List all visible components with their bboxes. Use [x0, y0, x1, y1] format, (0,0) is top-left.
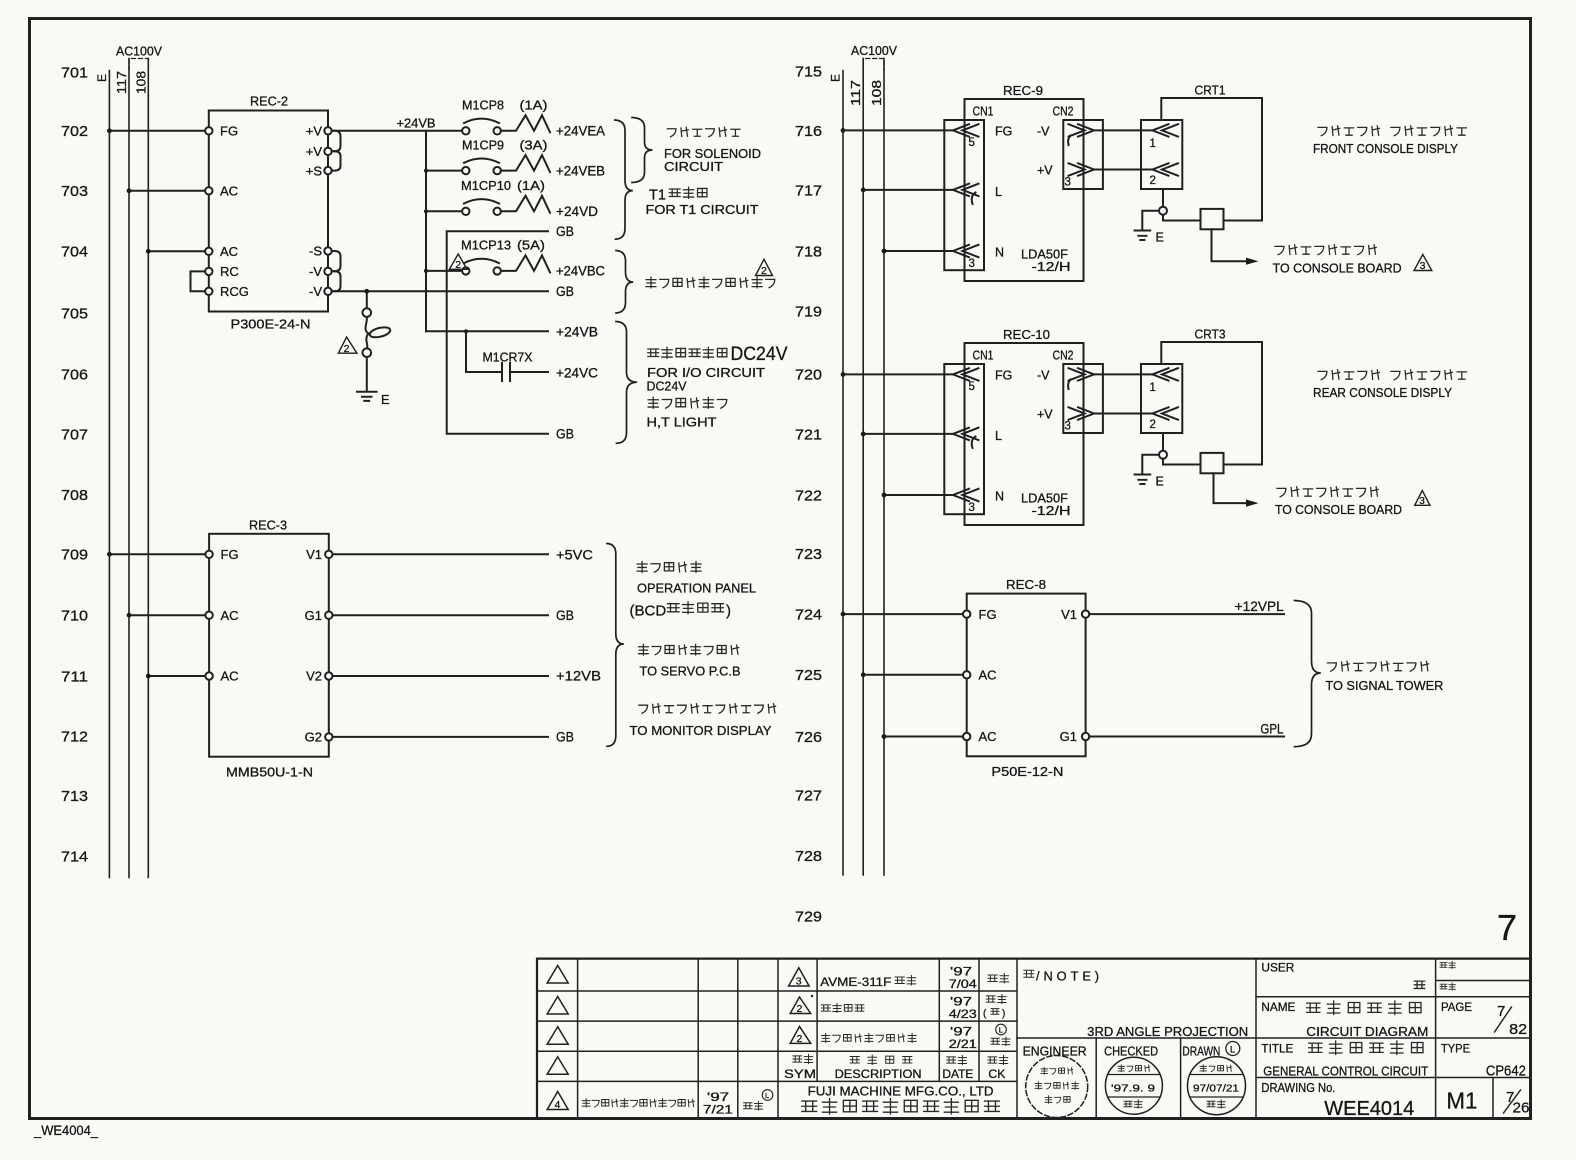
svg-text:): ) — [1002, 1008, 1005, 1019]
svg-text:-V: -V — [1037, 369, 1050, 383]
wire 709 E to REC-3 FG — [107, 552, 205, 557]
svg-text:+24VBC: +24VBC — [556, 264, 605, 279]
wire G1 GB — [333, 614, 549, 616]
ground E (left) — [357, 392, 390, 407]
svg-text:2: 2 — [797, 1003, 803, 1015]
wire 724 E to REC-8 FG — [841, 612, 963, 617]
net label +24VEA — [556, 124, 605, 139]
svg-text:-V: -V — [309, 264, 322, 279]
svg-text:(1A): (1A) — [517, 179, 545, 193]
svg-text:708: 708 — [61, 487, 88, 504]
REC-2 pin RC — [205, 264, 239, 279]
svg-text:): ) — [726, 603, 731, 620]
svg-text:CIRCUIT: CIRCUIT — [664, 159, 723, 174]
label TO SIGNAL TOWER — [1325, 678, 1443, 693]
wire CN2 -V to CRT3 pin1 — [1094, 373, 1153, 375]
svg-text:_WE4004_: _WE4004_ — [33, 1122, 98, 1138]
svg-text:REC-2: REC-2 — [250, 94, 288, 109]
net label +24VB top — [397, 116, 436, 131]
svg-text:CN2: CN2 — [1053, 104, 1074, 118]
jumper -V/-V — [332, 271, 341, 291]
svg-text:-12/H: -12/H — [1032, 260, 1071, 274]
wire 711 108 to REC-3 AC — [146, 674, 205, 679]
svg-text:5: 5 — [969, 381, 975, 393]
brace io group — [616, 322, 637, 444]
svg-text:GB: GB — [556, 608, 574, 623]
svg-text:717: 717 — [795, 183, 822, 200]
svg-text:G1: G1 — [305, 608, 322, 623]
line number 726 — [795, 729, 822, 746]
svg-text:FUJI MACHINE MFG.CO., LTD: FUJI MACHINE MFG.CO., LTD — [808, 1084, 994, 1099]
svg-text:FRONT CONSOLE DISPLY: FRONT CONSOLE DISPLY — [1313, 141, 1458, 156]
svg-text:-12/H: -12/H — [1032, 504, 1071, 518]
svg-text:2: 2 — [797, 1033, 803, 1045]
svg-text:CN2: CN2 — [1053, 348, 1074, 362]
company FUJI MACHINE MFG.CO., LTD — [808, 1084, 994, 1099]
jumper -S/-V — [332, 251, 341, 271]
wire G2 GB — [333, 736, 549, 738]
label signal tower jp — [1327, 661, 1428, 671]
line number 729 — [795, 908, 822, 925]
branch to M1CP9 — [426, 170, 462, 172]
wire 725 117 to REC-8 AC — [861, 672, 963, 677]
svg-text:REC-9: REC-9 — [1003, 83, 1043, 98]
label REAR CONSOLE DISPLY — [1313, 385, 1452, 400]
svg-text:711: 711 — [61, 668, 88, 685]
revision 3 description AVME-311F jp — [820, 975, 916, 989]
title electric circuit diagram jp — [1307, 1001, 1421, 1015]
svg-text:+24VEB: +24VEB — [556, 163, 605, 178]
REC-2 pin FG — [205, 124, 238, 139]
svg-text:CHECKED: CHECKED — [1104, 1045, 1158, 1059]
svg-text:M1: M1 — [1446, 1088, 1477, 1114]
REC-8 pin AC (117) — [963, 668, 997, 683]
branch to M1CP13 — [426, 270, 462, 272]
fuse M1CP10 (1A) — [461, 179, 550, 215]
CN1 pin L arrow — [953, 428, 1002, 448]
big page number 7 — [1497, 907, 1517, 948]
label tono jp — [1414, 981, 1424, 988]
engineer stamp — [1026, 1056, 1088, 1118]
brace safety group — [616, 251, 633, 314]
header DESCRIPTION — [835, 1055, 922, 1081]
header CK — [988, 1055, 1008, 1081]
svg-text:5: 5 — [969, 137, 975, 149]
svg-text:GB: GB — [556, 730, 574, 745]
svg-text:M1CP8: M1CP8 — [462, 99, 504, 113]
svg-text:701: 701 — [61, 64, 88, 81]
svg-text:SYM: SYM — [784, 1069, 816, 1081]
revision 2 date — [949, 994, 977, 1021]
power supply REC-9 box — [965, 83, 1084, 281]
REC-2 pin -S — [309, 244, 332, 259]
svg-text:+V: +V — [1037, 408, 1053, 422]
svg-text:722: 722 — [795, 487, 822, 504]
label TYPE — [1441, 1041, 1470, 1055]
drawn stamp — [1188, 1057, 1246, 1115]
bus 108 (right) — [870, 59, 884, 876]
svg-text:3: 3 — [969, 258, 975, 270]
svg-text:REC-3: REC-3 — [249, 518, 287, 533]
header CHECKED — [1104, 1045, 1158, 1059]
ground E CRT1 — [1135, 231, 1164, 245]
revision triangle 2 at M1CP13 — [449, 254, 467, 271]
svg-text:(3A): (3A) — [520, 138, 548, 152]
net label +24VEB — [556, 163, 605, 178]
svg-text:702: 702 — [61, 123, 88, 140]
wire 703 117 to REC-2 AC — [127, 188, 206, 193]
label 3RD ANGLE PROJECTION — [1087, 1024, 1248, 1039]
svg-text:CK: CK — [988, 1069, 1005, 1081]
label bunban jp — [1440, 961, 1455, 968]
header SYM — [784, 1054, 816, 1081]
console tap box CRT3 — [1201, 453, 1224, 473]
line number 728 — [795, 848, 822, 865]
note box — [1017, 959, 1256, 1119]
drawing number WEE4014 — [1324, 1098, 1414, 1120]
wire 108 bus to CN1 N — [882, 493, 953, 498]
label T1 circuit jp — [649, 187, 707, 203]
bus 108 (left) — [135, 59, 149, 878]
line number 712 — [61, 729, 88, 746]
fuse M1CP8 (1A) — [462, 99, 550, 135]
svg-text:V1: V1 — [306, 547, 322, 562]
svg-text:117: 117 — [115, 71, 129, 94]
svg-text:AC: AC — [221, 669, 239, 684]
svg-text:GB: GB — [556, 284, 574, 299]
svg-text:CN1: CN1 — [973, 104, 994, 118]
svg-text:M1CR7X: M1CR7X — [483, 351, 534, 365]
svg-text:M1CP9: M1CP9 — [462, 138, 504, 152]
svg-text:E: E — [829, 74, 843, 82]
svg-text:L: L — [765, 1091, 769, 1100]
wire CN2 +V to CRT1 pin2 — [1094, 169, 1153, 171]
line number 719 — [795, 303, 822, 320]
svg-text:724: 724 — [795, 606, 822, 623]
label FOR I/O CIRCUIT — [647, 365, 765, 380]
svg-text:+V: +V — [306, 144, 323, 159]
svg-text:RC: RC — [220, 264, 239, 279]
svg-text:CIRCUIT DIAGRAM: CIRCUIT DIAGRAM — [1306, 1024, 1428, 1039]
connector CN2 of REC-10 — [1053, 348, 1103, 433]
wire +24VB out — [426, 329, 548, 333]
svg-text:-V: -V — [309, 284, 322, 299]
capacitor M1CR7X — [466, 331, 548, 381]
bus 117 (left) — [115, 59, 129, 878]
connector 1/2 of CRT1 — [1141, 120, 1182, 189]
revision triangle 2 entry — [790, 1027, 811, 1046]
revision 2 CK jp — [983, 994, 1006, 1019]
svg-text:USER: USER — [1261, 963, 1294, 975]
svg-text:97/07/21: 97/07/21 — [1193, 1083, 1239, 1095]
label DRAWING No. — [1261, 1081, 1335, 1095]
svg-text:GPL: GPL — [1260, 722, 1283, 737]
REC-3 pin FG — [205, 547, 238, 562]
svg-text:2/21: 2/21 — [949, 1037, 977, 1051]
earth tap from -V : circles and loop — [363, 289, 392, 390]
sheet M1 — [1446, 1088, 1477, 1114]
label GENERAL CONTROL CIRCUIT — [1263, 1064, 1428, 1079]
label DC24V small — [647, 379, 687, 394]
revision 2b description jp — [822, 1033, 917, 1042]
line number 722 — [795, 487, 822, 504]
empty revision triangle row 2 — [547, 997, 568, 1015]
REC-2 pin AC (108) — [205, 244, 238, 259]
CRT3 pin 2 arrow — [1150, 407, 1179, 450]
empty revision triangle row 4 — [547, 1057, 568, 1075]
svg-text:7/21: 7/21 — [703, 1103, 733, 1117]
svg-text:H,T LIGHT: H,T LIGHT — [647, 415, 717, 430]
line number 714 — [61, 848, 88, 865]
svg-text:117: 117 — [849, 80, 863, 106]
svg-text:RCG: RCG — [220, 284, 249, 299]
svg-text:CP642: CP642 — [1486, 1064, 1526, 1080]
svg-text:/NOTE): /NOTE) — [1036, 969, 1103, 984]
label PAGE — [1441, 1000, 1472, 1014]
svg-text:PAGE: PAGE — [1441, 1000, 1472, 1014]
checked stamp — [1105, 1057, 1162, 1114]
line number 706 — [61, 366, 88, 383]
net label GB (T1) — [556, 224, 574, 239]
svg-text:E: E — [381, 392, 390, 407]
label USER — [1261, 963, 1294, 975]
svg-text:L: L — [1230, 1044, 1235, 1054]
CN1 pin FG arrow 5 — [953, 368, 1012, 393]
svg-text:CRT3: CRT3 — [1195, 327, 1226, 342]
right revision table — [778, 959, 1017, 1119]
net label GB (monitor) — [556, 730, 574, 745]
line number 707 — [61, 426, 88, 443]
CN2 pin -V arrow 1 — [1037, 368, 1094, 389]
branch to M1CP10 — [426, 210, 462, 212]
net label +12VB — [556, 669, 601, 684]
revision triangle 4 row — [547, 1092, 568, 1112]
CN1 pin FG arrow 5 — [953, 124, 1012, 149]
label operation panel jp — [637, 561, 701, 572]
label monitor display jp — [639, 704, 776, 714]
svg-text:716: 716 — [795, 123, 822, 140]
label console board jp (front) — [1275, 245, 1376, 255]
svg-text:-S: -S — [309, 244, 322, 259]
label OPERATION PANEL — [637, 581, 756, 596]
svg-text:108: 108 — [135, 71, 149, 94]
svg-text:7/04: 7/04 — [949, 977, 977, 991]
wire 704 108 to REC-2 AC — [146, 249, 205, 254]
svg-text:L: L — [995, 429, 1002, 443]
line number 723 — [795, 546, 822, 563]
empty revision triangle row 3 — [547, 1027, 568, 1045]
dashed bracket AC100V left — [129, 59, 148, 71]
wire 726 108 to REC-8 AC — [882, 734, 963, 739]
label TO SERVO P.C.B — [640, 664, 741, 679]
GB return upper — [447, 231, 548, 433]
svg-text:713: 713 — [61, 788, 88, 805]
line number 702 — [61, 123, 88, 140]
header DATE — [942, 1055, 973, 1081]
svg-text:3RD ANGLE PROJECTION: 3RD ANGLE PROJECTION — [1087, 1024, 1248, 1039]
REC-3 pin AC (117) — [205, 608, 238, 623]
net label +24VB out — [556, 325, 598, 340]
svg-text:+24VC: +24VC — [556, 366, 598, 381]
svg-text:G1: G1 — [1060, 729, 1077, 744]
REC-2 pin RCG — [205, 284, 249, 299]
wire CN2 -V to CRT1 pin1 — [1094, 129, 1153, 131]
label TITLE — [1261, 1041, 1293, 1055]
wire V1 +5VC — [333, 553, 549, 555]
display unit CRT3 box — [1161, 327, 1262, 465]
label FOR SOLENOID — [664, 146, 761, 161]
svg-text:723: 723 — [795, 546, 822, 563]
label console display front jp — [1318, 126, 1467, 136]
REC-8 pin AC (108) — [963, 729, 997, 744]
svg-text:+V: +V — [306, 124, 323, 139]
CN1 pin L arrow — [953, 184, 1002, 204]
REC-2 pin +V (1) — [306, 124, 332, 139]
label H,T LIGHT — [647, 415, 717, 430]
line number 721 — [795, 427, 822, 444]
svg-text:FOR T1 CIRCUIT: FOR T1 CIRCUIT — [646, 202, 759, 217]
label NAME — [1261, 1000, 1295, 1014]
bus E (left) — [95, 71, 109, 878]
line number 720 — [795, 366, 822, 383]
REC-2 pin -V (1) — [309, 264, 332, 279]
line number 703 — [61, 183, 88, 200]
label CIRCUIT — [664, 159, 723, 174]
line number 701 — [61, 64, 88, 81]
label console display rear jp — [1318, 370, 1467, 380]
svg-text:714: 714 — [61, 848, 88, 865]
svg-text:WEE4014: WEE4014 — [1324, 1098, 1414, 1120]
wire 117 bus to CN1 L — [861, 188, 953, 193]
svg-text:N: N — [995, 490, 1004, 504]
svg-text:707: 707 — [61, 426, 88, 443]
CN1 pin N arrow 3 — [953, 489, 1004, 514]
note label jp/NOTE — [1024, 969, 1103, 984]
CRT1 pin 1 arrow — [1150, 124, 1179, 150]
jumper +V/+V — [332, 131, 341, 152]
svg-text:4: 4 — [555, 1099, 561, 1111]
svg-text:718: 718 — [795, 244, 822, 261]
revision triangle 2-dot entry — [790, 995, 813, 1015]
svg-text:703: 703 — [61, 183, 88, 200]
svg-text:TO CONSOLE BOARD: TO CONSOLE BOARD — [1275, 502, 1402, 517]
svg-text:V2: V2 — [306, 669, 322, 684]
label safety stop jp — [646, 277, 775, 288]
revision triangle 3 entry — [789, 968, 810, 988]
svg-text:3: 3 — [1419, 496, 1425, 507]
fuse M1CP9 (3A) — [462, 138, 550, 174]
CRT3 pin 1 arrow — [1150, 368, 1179, 394]
net label +24VC — [556, 366, 598, 381]
svg-text:FG: FG — [995, 125, 1012, 139]
svg-text:26: 26 — [1513, 1100, 1530, 1117]
svg-text:DC24V: DC24V — [647, 379, 687, 394]
title block outline lines — [537, 959, 1531, 1119]
REC-2 pin +S — [306, 163, 332, 178]
svg-text:+24VEA: +24VEA — [556, 124, 605, 139]
REC-8 pin V1 — [1061, 607, 1089, 622]
svg-text:2: 2 — [455, 259, 461, 271]
svg-text:L: L — [999, 1026, 1003, 1035]
page fraction 7/82 — [1495, 1003, 1528, 1038]
label io circuit jp + DC24V — [648, 344, 788, 365]
svg-text:-V: -V — [1037, 125, 1050, 139]
svg-text:709: 709 — [61, 547, 88, 564]
line number 713 — [61, 788, 88, 805]
svg-text:82: 82 — [1509, 1021, 1527, 1038]
line number 710 — [61, 608, 88, 625]
left revision table — [537, 959, 778, 1119]
svg-text:E: E — [1156, 475, 1164, 489]
svg-text:TO SERVO P.C.B: TO SERVO P.C.B — [640, 664, 741, 679]
display unit CRT1 box — [1161, 83, 1262, 221]
svg-text:726: 726 — [795, 729, 822, 746]
svg-text:CN1: CN1 — [973, 348, 994, 362]
svg-text:108: 108 — [870, 80, 884, 106]
svg-text:AC100V: AC100V — [116, 45, 163, 59]
svg-text:FG: FG — [221, 547, 239, 562]
svg-text:+24VB: +24VB — [556, 325, 598, 340]
line number 708 — [61, 487, 88, 504]
revision 2b CK — [991, 1024, 1010, 1045]
revision 4 CK — [744, 1090, 773, 1110]
net label AC100V (left) — [116, 45, 163, 59]
svg-text:CRT1: CRT1 — [1195, 83, 1226, 98]
REC-3 pin V1 — [306, 547, 332, 562]
svg-text:+24VB: +24VB — [397, 116, 436, 131]
jumper +V/+S — [332, 151, 341, 170]
svg-text:1: 1 — [1150, 382, 1156, 394]
svg-text:704: 704 — [61, 244, 88, 261]
svg-text:2: 2 — [344, 343, 350, 355]
revision 2b date — [949, 1024, 977, 1051]
connector CN1 of REC-9 — [944, 104, 993, 270]
REC-8 pin FG — [963, 607, 997, 622]
label TO CONSOLE BOARD (rear) — [1275, 502, 1402, 517]
title general control circuit jp — [1309, 1041, 1423, 1055]
svg-text:7: 7 — [1497, 907, 1517, 948]
svg-text:715: 715 — [795, 63, 822, 80]
console tap box CRT1 — [1201, 209, 1224, 229]
wire V1 +12VPL — [1089, 613, 1284, 615]
svg-text:AC: AC — [220, 184, 238, 199]
svg-text:NAME: NAME — [1261, 1000, 1295, 1014]
REC-8 pin G1 — [1060, 729, 1090, 744]
svg-text:AC: AC — [979, 729, 997, 744]
svg-text:1: 1 — [1150, 138, 1156, 150]
revision 4 date — [703, 1090, 733, 1117]
power supply REC-10 box — [965, 327, 1084, 525]
svg-text:REC-8: REC-8 — [1006, 577, 1046, 592]
svg-text:AC: AC — [979, 668, 997, 683]
label console board jp (rear) — [1277, 487, 1378, 497]
svg-text:2: 2 — [1150, 419, 1156, 431]
REC-3 pin G2 — [305, 730, 333, 745]
svg-text:4/23: 4/23 — [949, 1007, 977, 1021]
svg-text:728: 728 — [795, 848, 822, 865]
line number 709 — [61, 547, 88, 564]
empty revision triangle row 1 — [547, 966, 568, 984]
svg-text:705: 705 — [61, 305, 88, 322]
value CP642 — [1486, 1064, 1526, 1080]
svg-text:E: E — [1156, 231, 1164, 245]
svg-text:FG: FG — [995, 369, 1012, 383]
label FOR T1 CIRCUIT — [646, 202, 759, 217]
net label GPL — [1260, 722, 1283, 737]
label solenoid jp — [667, 127, 740, 137]
label servo pcb jp — [639, 644, 739, 654]
label seiban jp — [1440, 983, 1455, 990]
